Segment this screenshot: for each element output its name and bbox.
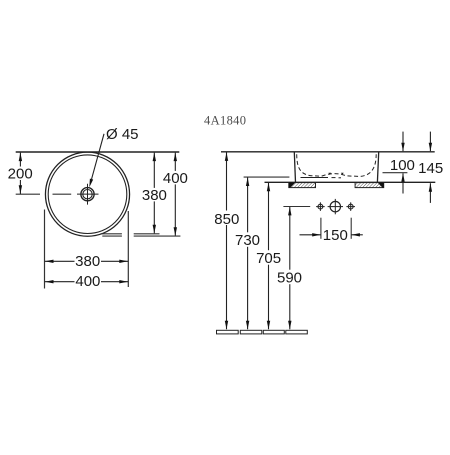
rim level line [221,151,435,153]
dimension 145 (right side) [418,132,443,203]
dimension 200 (left vertical) [8,153,34,195]
svg-text:400: 400 [75,273,100,290]
drain curve marks [329,173,332,175]
hidden drain lines [301,177,342,179]
top extension line [16,151,180,153]
dimension 590 [276,207,304,329]
dimension 380 (vertical, right of circle) [142,153,168,234]
150 extension lines [321,218,351,239]
svg-text:100: 100 [390,157,415,174]
floor slab 4 [286,330,308,334]
faucet hole center [328,199,343,214]
left extension line [44,210,46,289]
svg-text:150: 150 [323,227,348,244]
svg-text:400: 400 [163,170,188,187]
svg-text:590: 590 [277,269,302,286]
faucet hole right [346,202,355,211]
svg-text:850: 850 [214,211,239,228]
svg-text:200: 200 [8,165,33,182]
floor slab 3 [263,330,284,334]
counter cross-section left (hatched) [289,183,316,188]
svg-text:730: 730 [235,232,260,249]
dimension 400 (horizontal, bottom) [45,273,129,290]
bottom tangent line (400 level) [102,235,180,237]
counter surface line (705 level) [265,181,436,183]
590 level line [283,206,310,208]
svg-text:145: 145 [418,160,443,177]
drain hole (crosshair + circles) [77,184,99,205]
dimension 730 [234,178,262,330]
100 level line [383,172,408,174]
dimension 380 (horizontal, bottom) [45,253,129,270]
730 level line [244,176,290,178]
dimension 400 (vertical, right of circle) [163,153,189,236]
floor slab 2 [240,330,261,334]
leader line for diameter 45 [89,134,104,188]
right extension line [127,211,129,287]
inner circle (basin inner rim, 380) [48,155,127,234]
svg-text:380: 380 [142,187,167,204]
dimension 100 (right side) [390,132,415,194]
floor slab 1 [217,330,239,334]
basin side walls [294,152,378,182]
counter cross-section right (hatched) [355,183,384,188]
centerline (horizontal axis of basin) [16,193,71,195]
svg-text:705: 705 [256,250,281,267]
faucet hole left [316,202,325,211]
bottom tangent line (380 level) [101,233,160,235]
dimension 850 [213,152,241,329]
svg-text:Ø 45: Ø 45 [106,126,139,143]
dimension 705 [255,183,283,329]
svg-text:380: 380 [75,253,100,270]
hidden bowl profile (dashed) [297,154,377,176]
dimension 150 [300,227,363,244]
outer circle (basin rim, 400) [45,152,129,236]
svg-text:4A1840: 4A1840 [204,113,246,127]
